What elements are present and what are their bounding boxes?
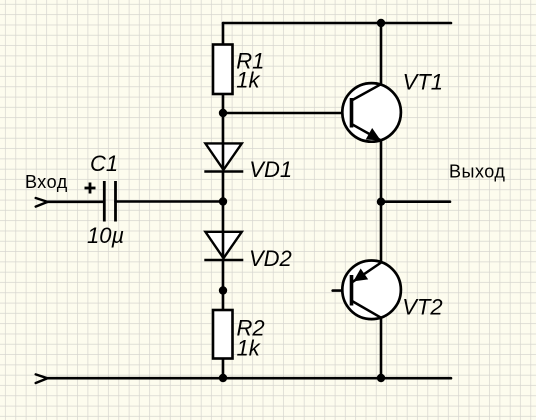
transistor VT2 [342, 261, 401, 320]
wire node A to VD1 anode [222, 113, 225, 169]
wire R1 top lead [222, 23, 225, 45]
diode VD1 [204, 143, 243, 171]
output node junction dot [377, 198, 385, 206]
node C junction dot [219, 286, 227, 294]
wire VD2 cathode to node C [222, 261, 225, 291]
wire R2 bottom lead [222, 359, 225, 379]
wire VT1 base [223, 112, 350, 115]
node B junction dot [219, 197, 227, 205]
wire top rail [223, 22, 451, 25]
svg-text:C1: C1 [90, 151, 118, 176]
svg-text:Выход: Выход [449, 162, 505, 182]
capacitor C1 [104, 181, 115, 222]
svg-text:Вход: Вход [25, 172, 68, 192]
transistor VT1 [342, 83, 401, 142]
svg-text:VT1: VT1 [403, 69, 443, 94]
wire output [381, 200, 450, 203]
wire C1 to node B [116, 200, 224, 203]
svg-text:VD2: VD2 [249, 246, 292, 271]
wire VT2 base stub [333, 289, 352, 292]
terminal arrow input bottom [36, 374, 48, 383]
wire VT1 collector lead [380, 23, 383, 85]
wire input arrow to C1 [48, 201, 104, 204]
svg-text:10µ: 10µ [87, 223, 124, 248]
svg-text:VD1: VD1 [249, 157, 292, 182]
node A junction dot [219, 109, 227, 117]
top rail junction dot at VT1 [377, 19, 385, 27]
wire output node to VT2 emitter [380, 202, 383, 262]
resistor R1 [213, 45, 233, 95]
wire VT2 collector lead [380, 318, 383, 378]
bottom rail junction dot at R2 [219, 374, 227, 382]
diode VD2 [204, 232, 243, 260]
wire VT1 emitter to output node [380, 140, 383, 202]
wire bottom rail [48, 377, 451, 380]
bottom rail junction dot at VT2 [377, 374, 385, 382]
resistor R2 [213, 310, 233, 359]
terminal arrow input top [36, 198, 48, 207]
wire R1 bottom lead to node A [222, 94, 225, 113]
svg-text:1k: 1k [236, 67, 260, 92]
wire node B to VD2 anode [222, 202, 225, 258]
polarity plus of C1 [85, 183, 96, 194]
svg-text:VT2: VT2 [402, 295, 442, 320]
wire node C to R2 top [222, 291, 225, 311]
wire VD1 cathode to node B [222, 172, 225, 202]
svg-text:1k: 1k [237, 336, 261, 361]
